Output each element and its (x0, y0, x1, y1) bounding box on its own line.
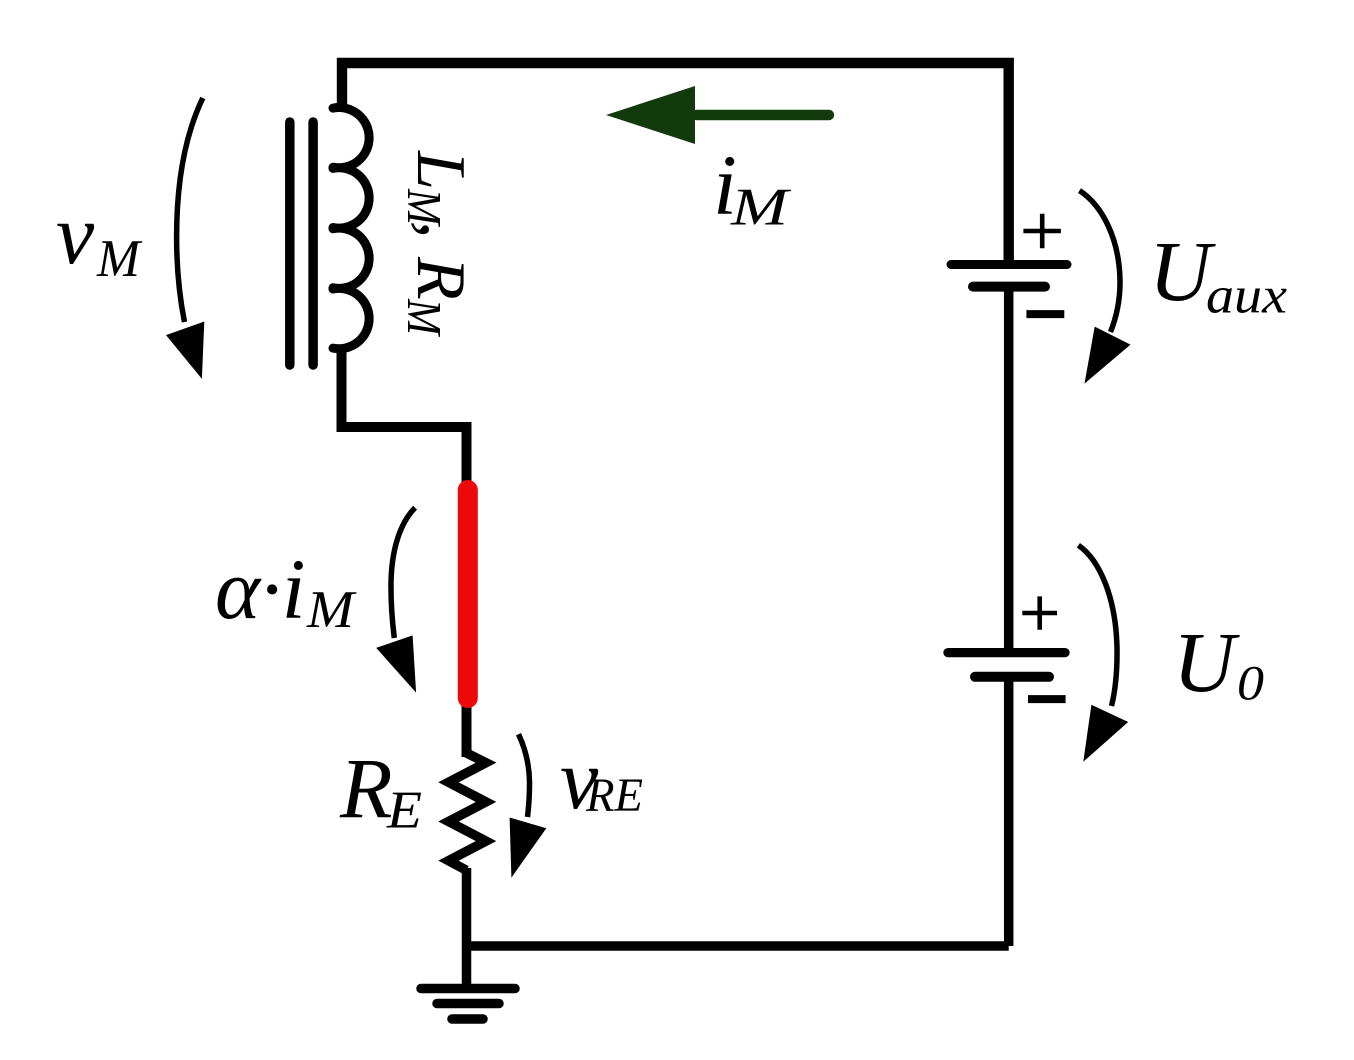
inductor core bar 1 (285, 122, 295, 365)
svg-text:RE: RE (585, 769, 643, 822)
minus sign U_0 (1028, 695, 1066, 703)
svg-text:v: v (56, 186, 95, 282)
wire: right mid segment between batteries (1004, 287, 1014, 650)
wire: right bottom segment (1004, 677, 1014, 946)
inductor L_M coil (4 bumps) (333, 107, 369, 348)
svg-text:0: 0 (1237, 655, 1264, 710)
svg-text:α·i: α·i (215, 541, 306, 637)
U_0 curved arrow head (1083, 705, 1128, 762)
ground bar 3 (452, 1014, 483, 1024)
inductor core bar 2 (308, 122, 318, 365)
v_RE curved arrow head (510, 818, 547, 878)
U_0 curved arrow arc (1078, 545, 1117, 706)
svg-text:aux: aux (1206, 268, 1287, 325)
wire: coil bottom jog down to controlled source and resistor (342, 345, 467, 757)
battery U_aux long plate (951, 260, 1067, 269)
ground bar 2 (437, 999, 499, 1009)
svg-text:E: E (386, 782, 422, 840)
wire: bottom rail (467, 941, 1009, 951)
svg-text:M: M (306, 581, 357, 639)
U_aux curved arrow arc (1080, 191, 1121, 332)
U_aux curved arrow head (1085, 327, 1131, 384)
resistor R_E zigzag (449, 753, 487, 870)
svg-text:M: M (397, 298, 452, 338)
alpha*i_M curved arrow arc (391, 508, 415, 638)
plus sign U_aux (1023, 214, 1061, 249)
current arrow i_M (green) head (606, 86, 695, 144)
svg-text:,: , (406, 221, 483, 239)
svg-text:R: R (339, 740, 393, 836)
svg-text:M: M (730, 179, 792, 237)
svg-text:U: U (1173, 614, 1240, 710)
plus sign U_0 (1022, 596, 1057, 629)
battery U_0 short plate (975, 672, 1049, 682)
v_RE curved arrow arc (519, 734, 530, 817)
ground bar 1 (421, 984, 515, 994)
alpha*i_M curved arrow head (376, 635, 416, 692)
wire: resistor to ground node (462, 868, 472, 984)
svg-text:M: M (96, 230, 143, 288)
label L_M, R_M (rotated) (397, 150, 483, 338)
controlled-source red bar (alpha*iM) (458, 490, 478, 698)
v_M curved arrow arc (177, 98, 203, 322)
battery U_0 long plate (948, 648, 1065, 657)
minus sign U_aux (1026, 310, 1064, 318)
battery U_aux short plate (973, 282, 1045, 292)
wire: top rail with left and right verticals (342, 63, 1009, 264)
current arrow i_M (green) shaft (697, 110, 829, 120)
v_M curved arrow head (166, 322, 204, 379)
svg-text:R: R (402, 256, 479, 300)
svg-text:L: L (402, 150, 479, 190)
